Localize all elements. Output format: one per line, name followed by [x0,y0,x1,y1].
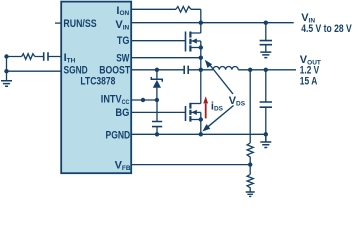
pin label SGND [64,64,88,76]
pin label VIN [115,19,129,31]
transistor Q1 drain stub [190,23,200,33]
inductor L1 [201,67,296,70]
wire TG pin [131,40,185,42]
ground G2 under CIN [260,52,271,58]
node INTVCC-diode junction [155,98,159,102]
capacitor CIN plates [260,41,272,45]
annotation arrow VDS lower [202,106,233,132]
transistor Q1 body stub [190,40,200,42]
resistor RFB2 [247,174,253,191]
node Q2 source junction [199,117,203,121]
annotation arrow iDS (red) [203,96,208,118]
diode DB boost schottky vertical wires [156,70,158,100]
capacitor COUT vertical [265,70,267,135]
node VOUT-FB junction [248,68,252,72]
svg-text:BG: BG [115,107,129,119]
transistor Q2 drain stub [190,103,200,105]
wire ITH pin [7,56,62,58]
label VIN range [301,23,352,35]
pin label INTVCC [101,94,130,106]
svg-text:SGND: SGND [64,64,88,76]
wire to RFB2 [249,165,251,175]
svg-text:iDS: iDS [211,100,224,112]
svg-text:BOOST: BOOST [99,65,130,77]
transistor Q1 source stub [190,47,200,49]
wire BG pin [131,111,185,113]
wire RUN/SS stub [55,22,61,24]
capacitor COUT plates [260,102,272,107]
wire ION pin [131,9,201,22]
pin label ION [116,5,129,17]
svg-text:SW: SW [116,52,130,64]
node PGND-COUT junction [264,132,268,136]
node VOUT-COUT junction [264,68,268,72]
svg-text:TG: TG [117,35,130,47]
node SW-inductor junction [199,68,203,72]
node SGND junction [4,69,8,73]
ground G4 under RFB2 [246,192,255,196]
ground G1 [1,81,12,87]
op-amp U1 LTC3878 controller body [61,2,131,174]
wire ITH-SGND vertical [6,57,8,81]
node ITH junction [4,54,8,58]
node VFB junction [248,162,252,166]
capacitor CITH [44,52,48,60]
node Q1 source junction [199,45,203,49]
annotation arrow VDS upper [205,60,233,94]
pin label BOOST [99,65,130,77]
pin label PGND [106,129,131,141]
svg-text:VDS: VDS [229,95,246,107]
transistor Q2 body arrow [192,110,197,115]
transistor Q2 bottom MOSFET gate [185,106,187,121]
transistor Q2 channel [189,103,191,122]
capacitor CB boost [184,66,188,74]
pin label ITH [64,52,76,64]
diode DB triangle [153,80,161,88]
resistor RFB1 [247,143,253,165]
label VDS [229,95,246,107]
node VIN-ION junction [199,21,203,25]
label VOUT rail [300,54,321,66]
diode DB cathode bar [151,77,162,82]
wire INTVCC pin [131,99,157,101]
resistor RITH [22,54,35,60]
pin label SW [116,52,130,64]
wire PGND rail [131,133,266,135]
node VIN-CIN junction [264,21,268,25]
svg-text:RUN/SS: RUN/SS [63,18,96,30]
wire feedback vertical from VOUT [249,70,251,143]
U1 label LTC3878 [80,76,115,88]
node PGND-Q2 junction [199,132,203,136]
wire SGND pin [7,70,62,72]
transistor Q1 channel [189,32,191,52]
svg-text:LTC3878: LTC3878 [80,76,115,88]
pin label VFB [115,159,131,171]
label VOUT current [300,76,318,88]
node INTVCC dot [141,98,145,102]
svg-text:PGND: PGND [106,129,131,141]
label iDS (red) [211,100,224,112]
capacitor CINTV plates [152,122,162,127]
capacitor CINTV vertical [156,100,158,134]
wire Q2 source to PGND [200,112,202,134]
node SW junction [199,56,203,60]
wire BOOST pin [131,69,201,71]
pin label RUN/SS [63,18,96,30]
resistor RION [176,7,191,13]
transistor Q2 source stub [190,119,200,121]
wire VIN rail [131,22,294,24]
svg-text:15 A: 15 A [300,76,318,88]
wire SW pin [131,57,201,59]
wire SW node vertical [200,41,202,104]
label VOUT value [300,65,320,77]
svg-text:4.5 V to 28 V: 4.5 V to 28 V [301,23,352,35]
capacitor CIN vertical [265,23,267,52]
node PGND-CINTV junction [155,132,159,136]
transistor Q1 top MOSFET gate [185,32,187,52]
wire VFB pin [131,164,250,166]
pin label TG [117,35,130,47]
label VIN rail [301,12,315,24]
node BOOST-diode junction [155,68,159,72]
pin label BG [115,107,129,119]
ground G3 under COUT [260,134,271,147]
transistor Q1 body arrow [192,38,197,43]
transistor Q2 body stub [190,111,200,113]
